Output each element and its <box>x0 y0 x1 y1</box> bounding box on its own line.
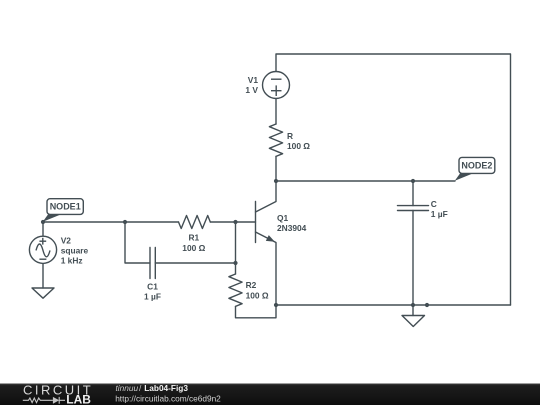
svg-text:V2: V2 <box>61 235 72 245</box>
svg-text:1 µF: 1 µF <box>144 292 161 302</box>
svg-text:Lab04-Fig3: Lab04-Fig3 <box>144 383 188 393</box>
svg-text:http://circuitlab.com/ce6d9n2: http://circuitlab.com/ce6d9n2 <box>115 393 221 403</box>
svg-text:NODE2: NODE2 <box>461 161 492 171</box>
svg-text:2N3904: 2N3904 <box>277 223 307 233</box>
svg-text:R1: R1 <box>188 233 199 243</box>
svg-text:Q1: Q1 <box>277 213 289 223</box>
svg-text:V1: V1 <box>248 75 259 85</box>
svg-text:1 kHz: 1 kHz <box>61 256 83 266</box>
svg-text:R2: R2 <box>246 280 257 290</box>
svg-text:LAB: LAB <box>66 393 91 405</box>
svg-text:tinnuu: tinnuu <box>116 383 139 393</box>
svg-text:NODE1: NODE1 <box>50 202 81 212</box>
svg-text:C: C <box>431 199 437 209</box>
svg-text:R: R <box>287 131 293 141</box>
svg-text:100 Ω: 100 Ω <box>287 141 310 151</box>
svg-text:100 Ω: 100 Ω <box>182 243 205 253</box>
svg-text:C1: C1 <box>147 282 158 292</box>
svg-text:1 µF: 1 µF <box>431 209 448 219</box>
svg-text:square: square <box>61 245 89 255</box>
svg-text:1 V: 1 V <box>245 85 258 95</box>
svg-text:100 Ω: 100 Ω <box>246 290 269 300</box>
